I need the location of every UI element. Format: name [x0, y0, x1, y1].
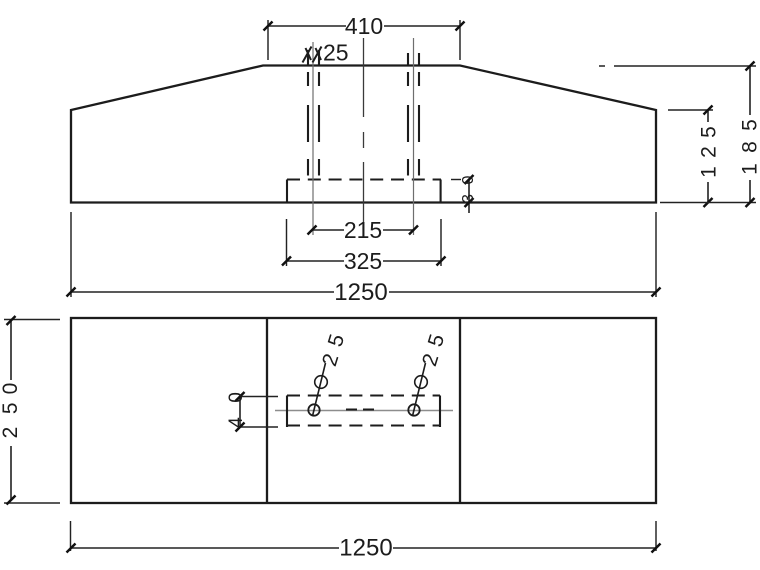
svg-text:5: 5 [0, 402, 22, 414]
plan internal line right [459, 318, 461, 503]
svg-text:4: 4 [226, 417, 247, 428]
svg-text:1: 1 [698, 166, 721, 178]
svg-text:325: 325 [344, 248, 382, 274]
svg-text:215: 215 [344, 217, 382, 243]
svg-text:1250: 1250 [334, 279, 387, 306]
svg-text:2: 2 [0, 427, 22, 439]
svg-text:25: 25 [323, 40, 349, 66]
hole 1 phi symbol [315, 376, 328, 389]
dimension 1250 (plan) [67, 521, 661, 562]
base plate (plan, dashed) [287, 396, 440, 428]
dimension 250 [0, 316, 60, 505]
hole 2 label 25 [418, 332, 449, 369]
dimension 1250 (elevation) [67, 212, 661, 306]
plan center line (gray) [275, 410, 453, 412]
hole 1 leader [313, 363, 326, 416]
svg-text:1250: 1250 [339, 535, 392, 562]
svg-text:0: 0 [460, 175, 477, 184]
anchor bolt 1 (dashed) [308, 50, 319, 176]
dimension 30 (plate thickness) [451, 175, 477, 213]
svg-text:410: 410 [345, 13, 383, 39]
dimension 325 [282, 219, 446, 274]
plate center dashes [346, 408, 374, 410]
hole 1 [308, 404, 319, 415]
label phi25 (bolts) [303, 40, 349, 66]
elevation outline [71, 66, 656, 203]
dimension 410 [264, 13, 465, 60]
hole 2 [408, 404, 419, 415]
svg-text:5: 5 [698, 126, 721, 138]
dimension 185 [599, 62, 760, 208]
dimension 40 (plate width) [226, 392, 278, 432]
svg-text:2: 2 [698, 146, 721, 158]
plan view outline [71, 318, 656, 503]
bolt 2 axis line [413, 38, 415, 235]
svg-text:1: 1 [739, 163, 760, 175]
svg-text:0: 0 [226, 392, 247, 403]
base plate (elevation, hidden edges) [287, 180, 441, 203]
svg-text:8: 8 [739, 141, 760, 153]
hole 2 leader [413, 363, 426, 416]
bolt 1 axis line [312, 42, 314, 235]
dimension 215 [308, 217, 419, 243]
anchor bolt 2 (dashed) [408, 53, 419, 176]
elevation center line [363, 38, 365, 237]
svg-text:3: 3 [460, 194, 477, 203]
dimension 125 [668, 106, 721, 208]
hole 1 label 25 [318, 332, 349, 369]
hole 2 phi symbol [415, 376, 428, 389]
svg-text:5: 5 [739, 119, 760, 131]
plan internal line left [266, 318, 268, 503]
svg-text:0: 0 [0, 383, 22, 395]
